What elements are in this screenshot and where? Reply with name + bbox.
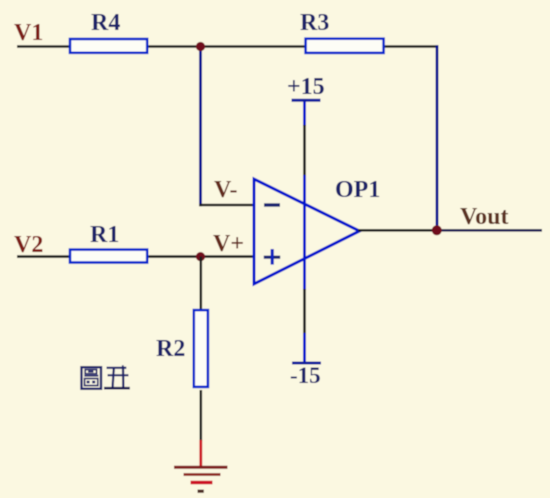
-15 blue stub [303,333,306,362]
svg-text:Vout: Vout [460,204,508,230]
glyph tu (figure) [82,367,102,389]
Vout node junction dot [432,225,442,235]
op-amp U1 power line upper: blue stub under +15 bar [303,100,306,126]
ground bar 1 [174,466,228,469]
-15 power bar [292,362,321,365]
wire op-amp output to Vout node [358,229,438,232]
wire right vertical down to Vout node [436,45,439,230]
svg-text:OP1: OP1 [335,177,380,203]
ground bar 2 [184,473,221,476]
wire node A to R3 [200,45,306,48]
svg-text:R4: R4 [91,10,120,36]
wire R3 to top-right corner [383,45,438,48]
ground [174,440,228,491]
wire node A down to V- corner [199,47,202,207]
wire V1 to R4 [17,45,70,48]
label Figure5 (drawn CJK) [82,365,130,389]
wire R2 to ground [200,390,203,441]
wire op-amp to -15 (black mid segment) [303,289,306,334]
svg-text:R2: R2 [156,336,185,362]
ground bar 3 [191,481,213,484]
op-amp minus sign [264,203,280,206]
wire V2 to R1 [17,255,70,258]
node A junction dot [196,42,205,51]
wire +15 to op-amp (black mid segment) [303,125,306,176]
svg-text:V2: V2 [14,232,43,258]
op-amp U1 triangle [254,179,360,284]
svg-text:V+: V+ [213,231,244,257]
wire Vout node to right edge [437,229,542,232]
svg-text:V-: V- [214,177,238,203]
svg-text:R1: R1 [90,222,119,248]
wire R4 to node A [148,45,202,48]
svg-text:+15: +15 [287,74,325,100]
svg-text:V1: V1 [14,20,43,46]
resistor R2 [194,310,208,387]
+15 power bar [292,99,321,102]
svg-text:-15: -15 [290,363,321,388]
op-amp plus sign [264,249,280,265]
resistor R3 [306,39,384,53]
ground stub (red) [199,440,202,467]
node B junction dot [196,252,205,261]
resistor R4 [70,39,147,53]
wire R1 to node B [148,255,202,258]
resistor R1 [70,250,147,263]
ground tick [198,490,204,493]
op-amp top power pin (blue, crosses triangle) [303,175,306,290]
wire V- horizontal into op-amp [199,204,254,207]
svg-text:R3: R3 [300,10,329,36]
glyph wu (five) [107,367,127,369]
wire node B down to R2 [200,257,203,309]
wire node B into op-amp V+ [200,255,254,258]
